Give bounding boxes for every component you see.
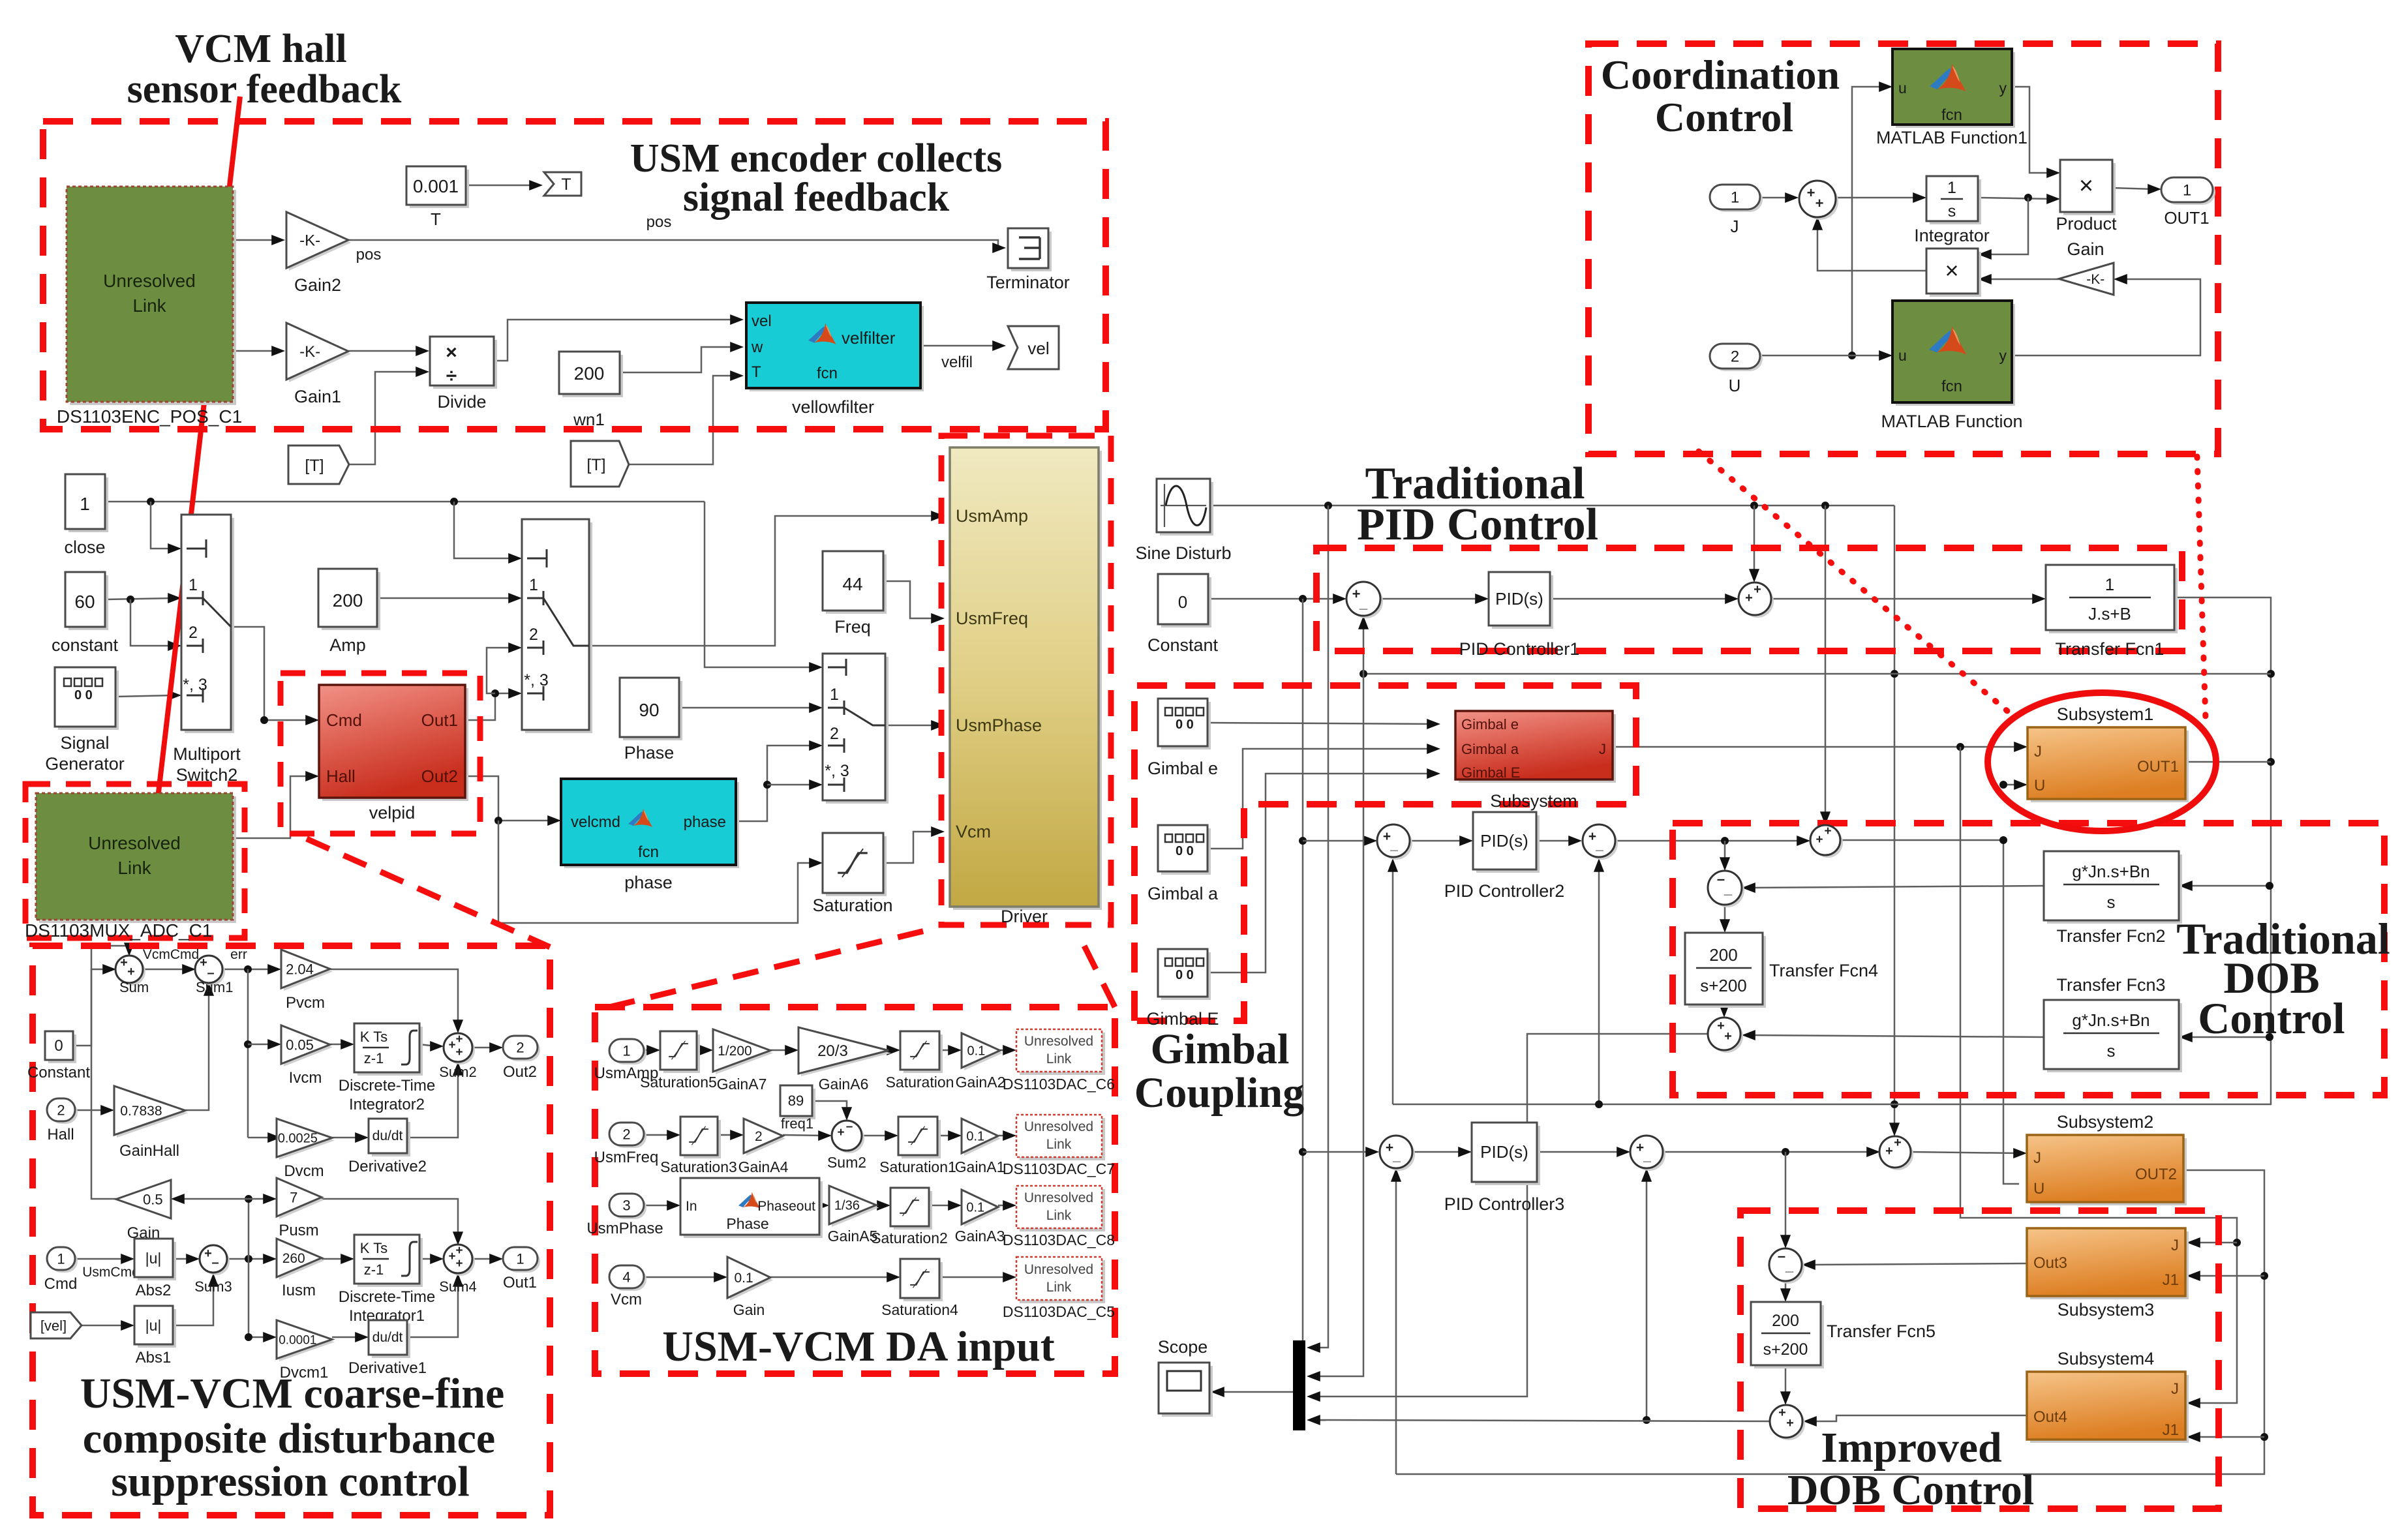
block: Saturation3 [684, 1120, 721, 1158]
svg-text:fcn: fcn [1941, 106, 1962, 124]
svg-text:*, 3: *, 3 [825, 762, 849, 780]
svg-text:UsmPhase: UsmPhase [586, 1220, 663, 1237]
sum: after PID3 [1633, 1138, 1665, 1171]
svg-text:Transfer Fcn1: Transfer Fcn1 [2055, 639, 2164, 659]
svg-text:89: 89 [788, 1093, 804, 1109]
wire: Cmd to Abs2 [75, 1258, 127, 1260]
svg-text:UsmAmp: UsmAmp [956, 506, 1028, 526]
block: Driver [953, 451, 1102, 910]
svg-text:1: 1 [1947, 179, 1956, 197]
wire: branch to switch C control [705, 502, 815, 667]
svg-text:composite disturbance: composite disturbance [83, 1415, 495, 1462]
block: freq1 89 [783, 1089, 815, 1119]
block: Derivative1 [372, 1323, 410, 1358]
svg-text:du/dt: du/dt [372, 1128, 403, 1143]
gain: Gain 0.1 [730, 1260, 773, 1301]
svg-text:Freq: Freq [834, 617, 871, 637]
box: Traditional DOB Control region [1673, 823, 2384, 1095]
wire: Sine Disturb line [1210, 505, 1894, 507]
sum: after PID2 [1585, 827, 1618, 860]
svg-text:UsmCmd: UsmCmd [82, 1265, 140, 1280]
svg-text:2: 2 [57, 1102, 65, 1118]
gain: GainHall [117, 1089, 188, 1138]
wire: UsmAmp1 row [644, 1049, 652, 1051]
svg-text:+: + [1724, 1029, 1732, 1044]
svg-text:velfil: velfil [941, 354, 973, 371]
svg-text:Saturation2: Saturation2 [871, 1230, 948, 1246]
wire: PID3 sums [1412, 1151, 1464, 1153]
svg-text:|u|: |u| [145, 1317, 162, 1334]
svg-text:U: U [2034, 777, 2045, 794]
wire: sum to Subsystem2 J [1911, 1152, 2019, 1153]
svg-text:Ivcm: Ivcm [289, 1069, 322, 1087]
svg-text:Vcm: Vcm [611, 1291, 642, 1308]
block: Signal Generator [58, 671, 119, 730]
wire: MATLAB Fn y to Gain [2012, 279, 2200, 355]
wire: Sum to Sum1 (VcmCmd) [142, 969, 188, 971]
svg-text:J: J [2034, 743, 2042, 761]
wire: Gain2 to Terminator (pos) [348, 240, 998, 248]
svg-text:-K-: -K- [299, 343, 320, 361]
wire: Out3 to minus sum [1810, 1263, 2027, 1265]
wire: J tap down to Sub3/Sub4 J [1960, 747, 2237, 1403]
block: Abs2 [138, 1242, 176, 1280]
svg-text:+: + [1824, 824, 1831, 838]
sum: Sum1 [198, 958, 225, 986]
sum: DOB plus [1710, 1020, 1743, 1053]
svg-text:Transfer Fcn2: Transfer Fcn2 [2056, 926, 2165, 946]
block: Saturation2 [894, 1191, 932, 1230]
svg-text:Sum4: Sum4 [439, 1278, 476, 1295]
svg-text:44: 44 [842, 574, 862, 594]
svg-text:GainA3: GainA3 [955, 1228, 1005, 1245]
svg-text:0.5: 0.5 [143, 1191, 163, 1207]
box: DS1103MUX region [25, 784, 245, 938]
sum: Sum [118, 958, 145, 986]
gain: Gain 0.5 left [116, 1180, 171, 1218]
svg-text:USM-VCM coarse-fine: USM-VCM coarse-fine [80, 1370, 505, 1417]
gain: GainA2 [964, 1036, 1003, 1070]
block: MATLAB Function [1896, 304, 2015, 406]
wire: Dvcm to Derivative2 [332, 1137, 361, 1139]
gain: Ivcm [284, 1028, 333, 1066]
wire: Saturation to Driver Vcm [883, 832, 937, 863]
svg-text:s: s [1948, 202, 1956, 220]
svg-text:+: + [1815, 195, 1824, 211]
svg-text:Cmd: Cmd [326, 710, 362, 730]
svg-text:2: 2 [189, 624, 198, 642]
svg-text:1: 1 [2105, 575, 2114, 594]
svg-text:DS1103ENC_POS_C1: DS1103ENC_POS_C1 [57, 406, 242, 427]
wire: DS1103ENC out1 to Gain2 [233, 239, 277, 241]
svg-text:1/200: 1/200 [718, 1044, 752, 1059]
block: Transfer Fcn5 [1754, 1305, 1824, 1368]
svg-text:z-1: z-1 [364, 1261, 384, 1278]
wire: Freq 44 to Driver UsmFreq [883, 581, 937, 618]
wire: Gain to Product1 [1986, 279, 2059, 280]
sum: Sum2 DA [834, 1123, 864, 1153]
wire: Sum1 err branches [222, 969, 273, 971]
block: Transfer Fcn4 [1688, 936, 1766, 1008]
svg-text:GainA2: GainA2 [956, 1074, 1006, 1091]
wire: UsmPhase row [644, 1205, 673, 1207]
svg-text:0.1: 0.1 [966, 1130, 984, 1144]
sum: Sum2 [446, 1036, 475, 1064]
wire: u feed up to MATLAB Fn1 [1852, 87, 1885, 355]
inport: Hall [50, 1101, 78, 1124]
from tag T 2 [571, 441, 629, 487]
wire: vellowfilter to vel goto [920, 345, 998, 347]
wire: Gain0.5 loop to Sum top [91, 946, 129, 1199]
wire: TF4 to plus sum [1724, 1004, 1725, 1010]
svg-text:pos: pos [356, 246, 382, 264]
svg-text:[T]: [T] [305, 457, 324, 475]
svg-text:Driver: Driver [1001, 907, 1048, 926]
wire: Sum4 to Out1 [472, 1258, 495, 1260]
svg-text:Control: Control [1655, 94, 1793, 140]
block: 90 Phase [623, 681, 682, 740]
inport: UsmPhase 3 [612, 1196, 646, 1219]
svg-text:Sum2: Sum2 [827, 1154, 866, 1171]
from tag T 1 [288, 445, 349, 484]
block: Amp 200 [322, 572, 380, 630]
wire: minus sum to TF5 [1785, 1281, 1787, 1294]
svg-text:DS1103DAC_C6: DS1103DAC_C6 [1003, 1076, 1115, 1093]
svg-text:Gimbal E: Gimbal E [1461, 764, 1520, 781]
svg-text:+: + [200, 956, 207, 970]
svg-text:Subsystem1: Subsystem1 [2057, 704, 2154, 724]
box: USM-VCM coarse-fine region [33, 946, 550, 1515]
svg-text:Amp: Amp [329, 635, 366, 655]
gain: GainA6 [801, 1030, 891, 1076]
svg-text:60: 60 [74, 592, 95, 612]
svg-text:J1: J1 [2163, 1271, 2179, 1289]
svg-text:–: – [1778, 1248, 1785, 1264]
leader: dotted from Coordination to Subsystem1 ellipse [1699, 451, 2007, 711]
svg-text:_: _ [1392, 1149, 1401, 1164]
svg-text:+: + [1815, 833, 1823, 847]
svg-text:In: In [686, 1199, 697, 1214]
sum: Sum3 [202, 1248, 230, 1275]
svg-text:Gain2: Gain2 [294, 275, 341, 295]
svg-text:constant: constant [52, 635, 119, 655]
block: Multiport Switch2 [185, 518, 234, 733]
wire: x2090 down to mux input2 [1314, 624, 1363, 1376]
svg-text:PID(s): PID(s) [1495, 589, 1543, 609]
svg-text:+: + [448, 1250, 455, 1263]
from tag vel [31, 1312, 82, 1338]
wire: Sub3 J1 input [2195, 1275, 2264, 1277]
svg-text:Sum2: Sum2 [439, 1064, 476, 1080]
svg-text:J1: J1 [2163, 1421, 2179, 1439]
svg-text:90: 90 [639, 700, 659, 720]
svg-text:Constant: Constant [27, 1064, 90, 1081]
svg-text:Saturation5: Saturation5 [640, 1074, 717, 1091]
wire: Sum2 to Out2 [472, 1047, 495, 1049]
svg-text:Control: Control [2198, 993, 2345, 1043]
svg-text:Unresolved: Unresolved [1024, 1262, 1093, 1277]
wire: switch C out to Driver UsmPhase [885, 725, 937, 727]
wire: Iusm to DTI1 [322, 1258, 346, 1260]
gain: GainA4 [746, 1121, 785, 1156]
inport: Vcm 4 [612, 1268, 646, 1291]
block: Gain2 [289, 215, 351, 271]
svg-text:Pvcm: Pvcm [286, 994, 325, 1012]
svg-text:0.1: 0.1 [967, 1044, 986, 1059]
wire: Constant0 to Sum [73, 969, 108, 1046]
svg-text:GainA6: GainA6 [819, 1076, 869, 1093]
wire: DTI1 to Sum4 [419, 1258, 436, 1260]
block: wn1 200 [562, 355, 623, 397]
svg-text:GainA5: GainA5 [828, 1228, 878, 1245]
svg-text:0.05: 0.05 [286, 1036, 314, 1053]
wire: 90 Phase to switch C input1 [679, 707, 815, 709]
block: Product [2063, 163, 2116, 215]
svg-text:Product: Product [2056, 214, 2117, 234]
svg-text:Unresolved: Unresolved [88, 833, 181, 853]
block: Divide [433, 340, 497, 389]
outport: Out1 [506, 1250, 540, 1273]
svg-text:Generator: Generator [45, 754, 125, 774]
wire: Subsystem1 U input [2003, 784, 2020, 786]
mux bar [1293, 1340, 1305, 1430]
block: Saturation [826, 836, 887, 896]
gain: GainA1 [964, 1121, 1001, 1156]
wire: 0.001 to T goto [466, 185, 535, 187]
wire: MUX ADC to velpid Hall [233, 776, 311, 838]
goto tag vel [1008, 326, 1059, 369]
block: Derivative2 [372, 1122, 410, 1156]
svg-text:Constant: Constant [1147, 635, 1219, 655]
block: Product1 [1930, 252, 1981, 297]
svg-text:+: + [1786, 1416, 1794, 1430]
svg-text:+: + [1745, 591, 1753, 605]
wire: OUT2 feedback path [1396, 1170, 2264, 1474]
svg-text:0.0001: 0.0001 [279, 1333, 316, 1347]
svg-text:2: 2 [529, 626, 538, 644]
block: MATLAB Function1 [1896, 52, 2015, 128]
svg-text:–: – [207, 966, 214, 980]
svg-text:Gimbal: Gimbal [1151, 1025, 1290, 1073]
wire: Derivative2 to Sum2 bottom [407, 1070, 458, 1138]
svg-text:1: 1 [529, 576, 538, 594]
svg-text:Saturation3: Saturation3 [660, 1158, 737, 1175]
wire: TF2 out to minus sum [1750, 886, 2044, 888]
svg-text:GainA1: GainA1 [955, 1158, 1005, 1175]
svg-text:+: + [455, 1033, 463, 1046]
wire: Pusm to Sum4 top [322, 1199, 458, 1237]
svg-text:-K-: -K- [2086, 272, 2104, 287]
block: constant 60 [68, 575, 108, 630]
block: Gimbal e [1161, 702, 1211, 749]
wire: Switch2 out to velpid Cmd [231, 627, 311, 720]
svg-text:Gain: Gain [733, 1301, 765, 1318]
wire: Abs2 to Sum3 [173, 1258, 192, 1260]
wire: rsum bottom input [1646, 1176, 1648, 1420]
svg-text:sensor feedback: sensor feedback [127, 67, 402, 112]
svg-text:T: T [431, 209, 441, 229]
svg-text:phase: phase [684, 813, 726, 831]
wire: constant 60 to switch inputs [105, 598, 174, 599]
svg-text:Transfer Fcn3: Transfer Fcn3 [2056, 975, 2165, 995]
svg-text:Out2: Out2 [421, 766, 458, 786]
svg-text:0 0: 0 0 [1176, 968, 1194, 982]
svg-text:Gimbal e: Gimbal e [1461, 716, 1519, 732]
sum: DOB minus [1710, 873, 1744, 907]
svg-text:Discrete-Time: Discrete-Time [339, 1288, 435, 1306]
svg-text:Link: Link [1046, 1137, 1072, 1152]
svg-text:_: _ [1643, 1149, 1651, 1164]
box: Improved DOB Control region [1740, 1211, 2219, 1509]
wire: Subsystem J out to Subsystem1 J [1613, 746, 2020, 748]
svg-text:Multiport: Multiport [173, 744, 241, 764]
svg-text:Saturation4: Saturation4 [881, 1301, 958, 1318]
svg-text:0.7838: 0.7838 [120, 1104, 162, 1119]
wire: branch to switch B control [454, 502, 514, 558]
sum: before PID1 [1349, 584, 1383, 618]
svg-text:PID(s): PID(s) [1480, 831, 1528, 851]
svg-text:Iusm: Iusm [282, 1282, 316, 1299]
wire: plus sum out left down to mux3 [1314, 1034, 1708, 1397]
block: Saturation1 [902, 1120, 941, 1158]
wire: Dvcm1 to Derivative1 [332, 1336, 361, 1338]
svg-text:Abs2: Abs2 [136, 1282, 172, 1299]
svg-text:UsmPhase: UsmPhase [956, 716, 1042, 735]
wire: TF2 input from feedback [2187, 885, 2270, 887]
svg-text:÷: ÷ [446, 365, 457, 387]
wire: switch B out to Driver UsmAmp [589, 516, 937, 646]
svg-text:Transfer Fcn5: Transfer Fcn5 [1827, 1321, 1936, 1341]
wire: Amp to switch B input1 [377, 597, 514, 599]
block: Phase fcn [684, 1181, 823, 1238]
svg-text:PID(s): PID(s) [1480, 1142, 1528, 1162]
svg-text:Sum1: Sum1 [196, 979, 233, 995]
box: velpid region [281, 673, 480, 834]
svg-text:+: + [1754, 582, 1761, 597]
wire: minus sum to TF4 [1724, 905, 1726, 925]
block: 44 Freq [826, 554, 887, 614]
svg-text:1: 1 [80, 494, 90, 514]
svg-text:MATLAB Function1: MATLAB Function1 [1876, 128, 2028, 147]
svg-text:T: T [561, 175, 571, 194]
wire: Vcm row [644, 1276, 720, 1278]
block: Discrete-Time Integrator1 [357, 1238, 423, 1287]
svg-text:Gimbal e: Gimbal e [1147, 759, 1218, 778]
block: phase fcn [564, 782, 739, 868]
block: DS1103DAC_C7 unresolved [1020, 1118, 1105, 1160]
gain: Pusm [279, 1181, 324, 1219]
wire: sum to PID2 [1410, 840, 1465, 842]
svg-text:Subsystem: Subsystem [1490, 791, 1577, 811]
svg-text:DS1103DAC_C8: DS1103DAC_C8 [1003, 1231, 1115, 1248]
svg-text:200: 200 [333, 590, 363, 611]
gain: GainA5 [832, 1188, 879, 1227]
block: Constant 0 [1161, 577, 1211, 627]
wire: Gain1 to Divide [348, 350, 421, 352]
inport: Cmd [50, 1250, 78, 1273]
svg-text:260: 260 [282, 1251, 305, 1266]
wire: Constant0 to sum [1208, 598, 1339, 600]
svg-text:Integrator2: Integrator2 [349, 1096, 425, 1113]
gain: Iusm [279, 1241, 324, 1280]
wire: long line y1033 [1363, 673, 2271, 675]
svg-text:×: × [2079, 172, 2093, 200]
inport: UsmFreq 2 [612, 1125, 646, 1148]
svg-text:*, 3: *, 3 [524, 671, 549, 689]
block: Transfer Fcn2 [2047, 854, 2182, 924]
svg-text:Integrator: Integrator [1914, 226, 1990, 245]
block: Sine Disturb [1160, 482, 1213, 536]
svg-text:[T]: [T] [586, 456, 605, 474]
gain: Dvcm [279, 1121, 335, 1160]
svg-text:K Ts: K Ts [360, 1029, 387, 1045]
svg-text:pos: pos [646, 213, 672, 231]
svg-text:+: + [1717, 1019, 1725, 1033]
svg-text:2: 2 [755, 1129, 763, 1144]
svg-text:1: 1 [2183, 182, 2191, 200]
svg-text:s: s [2107, 1041, 2116, 1061]
wire: DS1103ENC out2 to Gain1 [233, 350, 277, 352]
wire: TF3 out to plus sum [1750, 1035, 2044, 1037]
svg-text:Sum: Sum [119, 979, 149, 995]
wire: Sum3 out branches [228, 1258, 269, 1260]
wire: Derivative1 to Sum4 bottom [407, 1281, 458, 1337]
wire: PID1 to sum2 [1550, 598, 1731, 600]
wire: OUT1 feedback verticals to PID2 sums [1392, 866, 1394, 1104]
block: 0.001 constant [410, 170, 469, 208]
svg-text:Scope: Scope [1158, 1337, 1208, 1357]
svg-text:2: 2 [1731, 348, 1739, 366]
wire: wn1 to vellowfilter w [620, 347, 736, 372]
wire: OUT1 wire from Subsystem1 [2185, 761, 2271, 763]
svg-text:Divide: Divide [437, 392, 486, 412]
svg-text:Gimbal a: Gimbal a [1147, 884, 1219, 903]
svg-text:Gain: Gain [2067, 239, 2104, 259]
svg-text:Subsystem3: Subsystem3 [2058, 1300, 2155, 1320]
block: Integrator [1930, 179, 1981, 224]
svg-text:Subsystem4: Subsystem4 [2058, 1349, 2155, 1368]
svg-text:Dvcm: Dvcm [284, 1162, 324, 1180]
svg-text:close: close [64, 537, 105, 557]
svg-text:velpid: velpid [369, 803, 416, 823]
wire: UsmFreq row [644, 1134, 673, 1136]
block: Saturation (DA) [904, 1034, 943, 1073]
block: Discrete-Time Integrator2 [357, 1027, 423, 1076]
block: Transfer Fcn1 [2049, 568, 2178, 633]
svg-text:OUT1: OUT1 [2164, 208, 2209, 228]
wire: mux to Scope [1219, 1391, 1293, 1393]
wire: PID2 sum out to DOB sum [1615, 840, 1802, 842]
svg-text:Link: Link [117, 858, 151, 878]
svg-text:OUT1: OUT1 [2137, 758, 2179, 776]
wire: velpid Out2 to phase In [465, 776, 553, 821]
svg-text:Vcm: Vcm [956, 822, 991, 841]
svg-text:+: + [837, 1126, 844, 1140]
svg-text:Abs1: Abs1 [136, 1349, 172, 1366]
block: Constant 0 [48, 1034, 76, 1063]
block: Scope [1162, 1366, 1213, 1417]
svg-text:+: + [455, 1046, 463, 1059]
wire: Gimbal E to Subsystem [1208, 774, 1433, 973]
svg-text:velfilter: velfilter [842, 328, 896, 348]
wire: sum to Integrator [1835, 197, 1919, 199]
svg-text:1: 1 [830, 686, 839, 704]
wire: TF5 to plus sum [1785, 1365, 1787, 1397]
wire: GainHall to Sum1 bottom [185, 990, 209, 1110]
block: velpid [322, 688, 468, 801]
svg-text:PID Controller2: PID Controller2 [1444, 881, 1565, 901]
svg-text:USM encoder collects: USM encoder collects [630, 136, 1002, 181]
